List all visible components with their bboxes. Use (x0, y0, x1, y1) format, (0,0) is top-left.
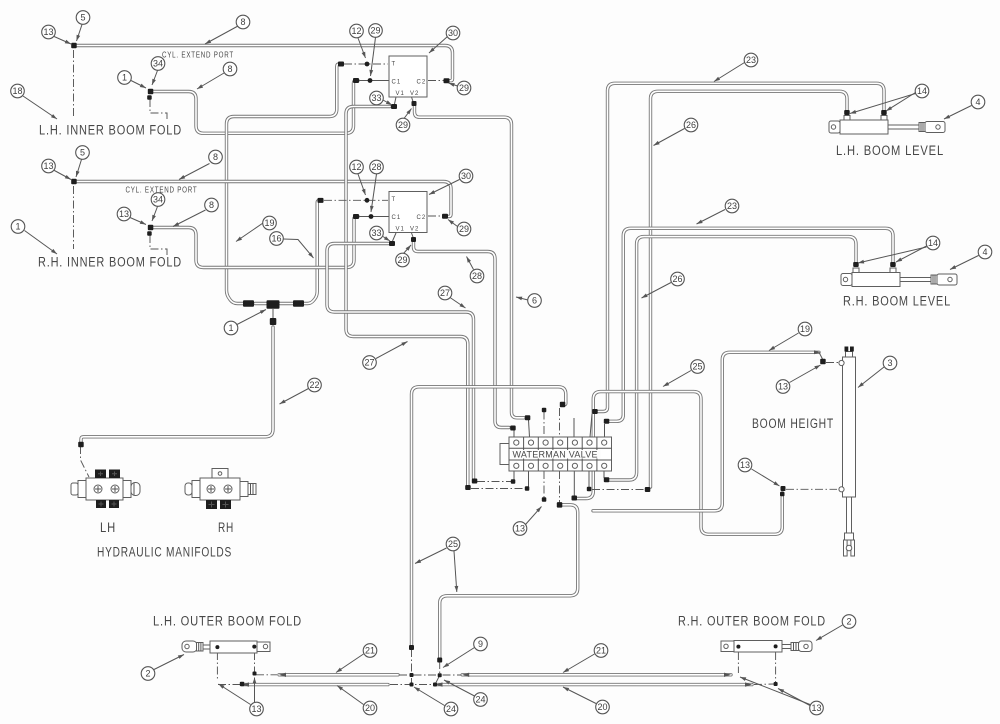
leader 13 RH outer a (740, 677, 810, 705)
hose 20 long bottom hose right segment (436, 683, 753, 686)
fitting waterman p1 top (510, 426, 516, 431)
svg-text:V1: V1 (396, 227, 405, 233)
RH hydraulic manifold (185, 469, 256, 510)
svg-text:25: 25 (692, 362, 702, 372)
callout 29 (369, 24, 383, 38)
centerline LH outer port 2 link (256, 674, 277, 676)
svg-text:20: 20 (597, 702, 607, 712)
leader 13 RH outer b (778, 689, 810, 706)
hose 6 valve U1 port V2 down to waterman port (415, 106, 525, 418)
callout 4 (978, 245, 992, 259)
centerline waterman port 3 bottom (543, 471, 545, 498)
svg-text:29: 29 (459, 83, 469, 93)
centerline valve U1 port T (344, 63, 388, 65)
fitting RH outer port1 (736, 645, 740, 649)
hose 22 tee down to LH manifold (81, 327, 273, 442)
leader 21 right (563, 654, 595, 673)
svg-text:V2: V2 (410, 91, 419, 97)
callout 14 (915, 84, 929, 98)
fitting tee right (293, 300, 304, 307)
centerline valve U2 port C2 (428, 215, 444, 217)
svg-text:28: 28 (472, 271, 482, 281)
LH hydraulic manifold (71, 470, 140, 509)
callout 34 (151, 57, 165, 71)
leader 20 left (337, 686, 364, 705)
callout 6 (528, 294, 542, 308)
callout 19 (263, 216, 277, 230)
line valve U1 C1 (358, 80, 389, 82)
svg-text:8: 8 (240, 17, 245, 27)
callout 12 (350, 160, 364, 174)
leader 5 LH inner (77, 25, 83, 42)
fitting valve U1 C1 elbow (353, 78, 359, 83)
leader 8 RH top (179, 164, 210, 180)
leader 4 LH (944, 106, 972, 120)
svg-text:14: 14 (928, 238, 938, 248)
centerline bottom junction vertical 9 (435, 661, 440, 685)
centerline waterman port 6 bottom link (592, 489, 646, 491)
svg-text:LH: LH (100, 520, 116, 535)
svg-text:1: 1 (15, 222, 20, 232)
callout 2 (141, 667, 155, 681)
leader 28 U2 (371, 174, 377, 212)
leader 8 RH extend (173, 210, 206, 227)
svg-text:R.H. OUTER BOOM FOLD: R.H. OUTER BOOM FOLD (678, 614, 826, 629)
line valve U2 C1 (358, 216, 389, 218)
hose 21 pointed ends (279, 673, 286, 677)
svg-text:BOOM HEIGHT: BOOM HEIGHT (752, 416, 834, 431)
svg-text:13: 13 (119, 209, 129, 219)
hose valve U2 port T down to tee (303, 201, 322, 304)
callout 1 (224, 321, 238, 335)
callout 13 (250, 702, 264, 716)
stub waterman port6 bottom (588, 471, 590, 488)
leader 21 left (336, 654, 364, 673)
svg-text:9: 9 (478, 639, 483, 649)
svg-text:34: 34 (153, 195, 163, 205)
leader 34 RH extend (152, 207, 158, 222)
fitting LH cyl extend port lower (147, 95, 152, 100)
leader 30 U1 (429, 37, 448, 54)
svg-text:21: 21 (365, 646, 375, 656)
svg-text:C1: C1 (392, 80, 402, 86)
svg-text:20: 20 (365, 703, 375, 713)
cylinder 30 L.H. boom level (829, 116, 945, 135)
stub waterman port7 bottom (603, 471, 605, 478)
svg-text:24: 24 (446, 704, 456, 714)
fitting waterman p7 top (604, 419, 610, 424)
callout 13 (117, 207, 131, 221)
svg-text:26: 26 (686, 120, 696, 130)
stub waterman port7 top (604, 424, 606, 437)
fitting waterman p4 bottom (557, 502, 563, 508)
callout 21 (363, 644, 377, 658)
centerline below RH inner fitting (73, 186, 75, 249)
stub waterman port6 top (590, 414, 592, 437)
svg-text:33: 33 (371, 228, 381, 238)
svg-text:3: 3 (887, 358, 892, 368)
leader 33 U1 (383, 100, 392, 105)
port dot valve U2 C1 line (369, 214, 374, 219)
centerline valve U2 port T (324, 199, 388, 201)
leader 13 boom height b (752, 469, 780, 486)
fitting waterman p6 bottom (587, 487, 592, 492)
svg-text:L.H. BOOM LEVEL: L.H. BOOM LEVEL (836, 143, 944, 158)
fitting RH cyl extend port (148, 225, 154, 231)
svg-text:8: 8 (209, 200, 214, 210)
callout 29 (396, 253, 410, 267)
svg-text:13: 13 (251, 704, 261, 714)
callout 30 (446, 26, 460, 40)
hose 27 valve U2 port V1 down to waterman (327, 244, 474, 479)
hose 8 LH cyl extend port to valve U1 port C1 (151, 81, 358, 134)
cylinder 2 R.H. outer boom fold (721, 641, 812, 653)
stub tee down (272, 309, 274, 318)
fitting RH boom level port2 (853, 262, 859, 267)
callout 8 (205, 198, 219, 212)
fitting hose9 bottom (437, 658, 442, 663)
svg-text:12: 12 (351, 162, 361, 172)
svg-text:C1: C1 (392, 215, 402, 221)
fitting hose25 bottom (409, 645, 414, 650)
fitting RH inner boom fold (71, 179, 77, 185)
centerline manifold feed (81, 446, 90, 477)
svg-text:V2: V2 (410, 227, 419, 233)
leader 28 hose (467, 257, 474, 270)
callout 23 (744, 53, 758, 67)
leader 27 upper (450, 298, 466, 309)
svg-text:24: 24 (475, 695, 485, 705)
svg-text:27: 27 (440, 288, 450, 298)
hose 25 waterman bottom port to boom height lower port (577, 392, 782, 535)
leader 4 RH (950, 256, 979, 270)
fitting waterman p2 top (525, 415, 531, 420)
hose tee right nipple (280, 302, 293, 305)
callout 16 (270, 232, 284, 246)
stub waterman port1 bottom (513, 471, 515, 480)
leader 13 RH inner (54, 170, 72, 180)
svg-text:C2: C2 (417, 215, 427, 221)
fitting hose22 end (78, 442, 84, 448)
callout 28 (470, 269, 484, 283)
svg-text:34: 34 (153, 59, 163, 69)
callout 13 (738, 458, 752, 472)
hose 23 LH boom level port 1 (598, 83, 884, 411)
fitting waterman p6 bottom b (645, 487, 651, 492)
cylinder 3 boom height (839, 347, 856, 557)
callout 20 (596, 700, 610, 714)
svg-text:T: T (392, 62, 397, 68)
fitting boom height upper (820, 359, 826, 365)
callout 26 (684, 118, 698, 132)
hose 26 LH boom level port 2 (651, 91, 848, 487)
junction dot 21/9 (438, 673, 442, 677)
leader 14 LH a (886, 93, 916, 112)
fitting valve U1 T elbow (338, 62, 344, 67)
centerline bracket LH extend port (150, 99, 167, 121)
callout 18 (11, 84, 25, 98)
svg-text:29: 29 (459, 224, 469, 234)
fitting waterman p2 bottom (465, 485, 471, 490)
callout 34 (151, 193, 165, 207)
stub waterman port1 top (513, 430, 515, 437)
centerline waterman port 1 bottom link (477, 481, 512, 483)
callout 13 (810, 701, 824, 715)
centerline RH outer port 1 (737, 652, 739, 673)
cylinder 2 L.H. outer boom fold (182, 641, 270, 653)
leader 29 U2 C2 (448, 220, 458, 227)
fitting LH boom level port1 (881, 110, 887, 115)
fitting waterman p6 top (592, 409, 598, 414)
svg-text:8: 8 (227, 64, 232, 74)
fitting valve U1 V2 (412, 101, 417, 106)
leader 1 LH extend (131, 81, 146, 89)
svg-text:13: 13 (43, 161, 53, 171)
svg-text:1: 1 (122, 73, 127, 83)
svg-text:6: 6 (532, 296, 537, 306)
callout 14 (926, 236, 940, 250)
svg-text:C2: C2 (417, 80, 427, 86)
leader 12 U1 (358, 38, 366, 58)
centerline bracket RH extend port (150, 235, 167, 257)
svg-text:29: 29 (370, 26, 380, 36)
fitting RH cyl extend port lower (147, 231, 152, 236)
leader 29 U1 C2 (449, 83, 458, 86)
leader 14 LH b (850, 94, 916, 114)
callout 33 (370, 91, 384, 105)
centerline boom height upper port (826, 362, 838, 364)
leader 25 left a (415, 548, 447, 564)
svg-text:5: 5 (80, 148, 85, 158)
callout 8 (236, 15, 250, 29)
fitting waterman p7 bottom (604, 477, 610, 482)
leader 12 U2 (358, 174, 366, 195)
callout 27 (363, 356, 377, 370)
stub waterman port2 bottom (528, 471, 530, 487)
hose 28 valve U2 port V2 down to waterman port (414, 242, 510, 428)
callout 30 (459, 169, 473, 183)
svg-text:8: 8 (213, 152, 218, 162)
stub hose19 end fitting (819, 352, 823, 359)
svg-text:L.H. INNER BOOM FOLD: L.H. INNER BOOM FOLD (39, 123, 182, 138)
stub valve U1 V1 (395, 97, 397, 104)
svg-text:22: 22 (309, 380, 319, 390)
fitting waterman p4 top (560, 402, 566, 408)
fitting tee left (243, 300, 254, 307)
leader 13 waterman (526, 507, 542, 525)
fitting waterman p1 bottom b (511, 479, 516, 484)
hose 8 RH cyl extend port to valve U2 port C1 (151, 217, 358, 268)
hose 27 valve U1 port V1 down to waterman (346, 107, 468, 486)
centerline bottom junction left 21 (399, 674, 461, 676)
hose 19 waterman to boom height upper port (593, 352, 819, 511)
svg-text:13: 13 (811, 703, 821, 713)
leader 26 LH (654, 129, 685, 146)
leader 9 (443, 648, 475, 668)
callout 1 (11, 220, 25, 234)
svg-text:R.H. INNER BOOM FOLD: R.H. INNER BOOM FOLD (38, 255, 182, 270)
centerline valve U1 port C2 (428, 80, 445, 82)
fitting valve U2 V1 (389, 241, 395, 246)
fitting valve U1 C2 (444, 78, 450, 83)
hose 9 waterman bottom port to bottom junction (440, 505, 578, 659)
callout 24 (444, 702, 458, 716)
callout 19 (798, 322, 812, 336)
leader 22 (280, 389, 309, 405)
leader 18 (23, 96, 57, 119)
svg-text:29: 29 (398, 120, 408, 130)
fitting RH outer port2 b (774, 682, 778, 686)
svg-text:21: 21 (596, 646, 606, 656)
stub waterman port2 top (529, 420, 530, 437)
centerline below LH inner fitting (73, 50, 75, 117)
centerline waterman port 2 bottom link (471, 488, 525, 490)
svg-text:19: 19 (800, 324, 810, 334)
leader 3 (858, 367, 884, 388)
stub waterman port5 top (573, 418, 575, 437)
leader 13 LH outer a (219, 684, 251, 705)
hose tee left nipple (255, 302, 266, 305)
svg-text:4: 4 (975, 97, 980, 107)
svg-text:29: 29 (397, 255, 407, 265)
fitting tee lower (270, 318, 277, 325)
hose valve U1 port T down to tee (227, 64, 343, 304)
leader 13 RH extend (130, 218, 146, 225)
svg-text:23: 23 (746, 55, 756, 65)
svg-text:HYDRAULIC MANIFOLDS: HYDRAULIC MANIFOLDS (97, 545, 232, 560)
svg-text:4: 4 (982, 247, 987, 257)
centerline LH outer port 1 link (218, 684, 240, 686)
leader 20 right (563, 687, 596, 704)
callout 13 (513, 522, 527, 536)
fitting valve U2 C2 (442, 214, 448, 219)
fitting waterman p3 bottom dot (542, 497, 547, 502)
leader 8 LH extend (197, 73, 224, 89)
centerline LH outer port 1 (216, 652, 218, 681)
centerline LH outer port 2 (254, 652, 256, 672)
svg-text:5: 5 (80, 13, 85, 23)
callout 25 (446, 537, 460, 551)
centerline RH outer port 2 link (754, 683, 774, 686)
hose 21 long bottom hose left segment (279, 673, 398, 676)
svg-text:23: 23 (727, 201, 737, 211)
leader 25 left b (454, 551, 457, 592)
leader 29 U1 V2 (404, 109, 412, 119)
svg-text:L.H. OUTER BOOM FOLD: L.H. OUTER BOOM FOLD (153, 614, 302, 629)
svg-text:18: 18 (12, 86, 22, 96)
leader 13 boom height a (790, 365, 821, 383)
fitting LH outer port2 (253, 645, 257, 649)
callout 13 (42, 159, 56, 173)
fitting waterman p5 bottom (572, 496, 578, 501)
callout 5 (76, 11, 90, 25)
hose 21 long bottom hose right segment (462, 673, 731, 676)
svg-text:19: 19 (264, 218, 274, 228)
junction dot 21/25 (410, 673, 414, 677)
leader 6 (516, 297, 528, 300)
svg-text:16: 16 (271, 234, 281, 244)
svg-text:R.H. BOOM LEVEL: R.H. BOOM LEVEL (843, 294, 951, 309)
fitting valve U2 V2 (411, 237, 416, 242)
centerline waterman port 4 top (559, 408, 561, 437)
callout 13 (776, 380, 790, 394)
fitting RH boom level port1 (890, 262, 896, 267)
leader 2 LH outer (154, 655, 184, 670)
svg-text:30: 30 (461, 171, 471, 181)
hose 8 top run to valve U1 port C2 (74, 46, 453, 81)
leader 27 lower (376, 342, 408, 359)
leader 1 tee (237, 310, 266, 325)
callout 23 (725, 199, 739, 213)
junction dot 20/9 (433, 683, 437, 687)
fitting LH outer port2 b (253, 672, 257, 676)
callout 4 (971, 95, 985, 109)
leader 23 LH (714, 63, 745, 82)
svg-text:33: 33 (371, 93, 381, 103)
callout 8 (209, 150, 223, 164)
fitting LH inner boom fold (71, 43, 77, 49)
leader 30 U2 (429, 180, 460, 195)
callout 21 (594, 644, 608, 658)
callout 33 (370, 226, 384, 240)
svg-text:27: 27 (364, 358, 374, 368)
leader 19 boom height (769, 333, 799, 351)
leader 16 hose (284, 239, 314, 258)
callout 9 (474, 637, 488, 651)
leader 13 LH inner (53, 36, 71, 44)
fitting hose20 left (240, 682, 245, 687)
cylinder 30 R.H. boom level (841, 268, 957, 287)
svg-text:2: 2 (145, 669, 150, 679)
leader 23 RH (697, 210, 726, 225)
callout 20 (363, 701, 377, 715)
callout 25 (691, 360, 705, 374)
svg-text:V1: V1 (396, 91, 405, 97)
leader 25 right (663, 371, 691, 387)
port dot valve U2 T line (365, 198, 370, 203)
stub waterman port5 bottom (573, 471, 575, 496)
svg-text:30: 30 (448, 28, 458, 38)
waterman valve block (500, 437, 612, 471)
svg-text:12: 12 (351, 26, 361, 36)
stub valve U2 V1 (393, 233, 397, 241)
hose 20 pointed ends (242, 682, 249, 686)
svg-text:13: 13 (515, 524, 525, 534)
leader 29 U2 V2 (404, 245, 412, 254)
hose 23 RH boom level port 1 (609, 228, 893, 421)
leader 34 LH extend (152, 71, 158, 86)
stub valve U1 V2 (412, 97, 414, 102)
svg-text:RH: RH (218, 520, 234, 535)
port dot valve U1 T line (365, 62, 370, 67)
hose 25 bottom junction up to waterman top port (412, 387, 566, 647)
leader 24 a (444, 680, 475, 696)
fitting waterman p3 top dot (542, 408, 547, 413)
fitting boom height lower (781, 486, 786, 491)
hose 26 RH boom level port 2 (609, 237, 856, 480)
fitting waterman p2 bottom b (525, 486, 530, 491)
hose 19 arrow at boom height end (814, 350, 820, 354)
fitting RH outer port2 (774, 644, 778, 648)
centerline RH outer port 2 (775, 652, 777, 684)
svg-text:13: 13 (740, 460, 750, 470)
callout 13 (42, 25, 56, 39)
leader 19 hose (236, 223, 263, 242)
centerline bottom junction left 20 (390, 684, 433, 686)
leader 33 U2 (383, 237, 390, 242)
centerline bottom junction vertical 25 (411, 649, 413, 685)
callout 26 (671, 272, 685, 286)
